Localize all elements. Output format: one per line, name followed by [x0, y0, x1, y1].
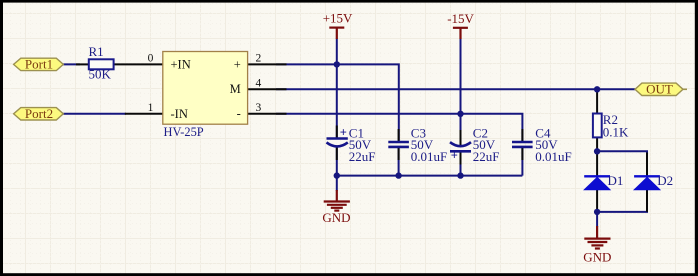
- svg-text:-: -: [237, 106, 241, 120]
- svg-text:D1: D1: [608, 173, 624, 188]
- svg-text:-15V: -15V: [447, 11, 474, 26]
- svg-text:M: M: [230, 82, 241, 96]
- svg-text:GND: GND: [322, 210, 350, 225]
- svg-text:1: 1: [148, 102, 154, 114]
- svg-text:+IN: +IN: [171, 57, 191, 71]
- svg-text:0.01uF: 0.01uF: [411, 149, 447, 164]
- svg-text:50K: 50K: [89, 67, 112, 82]
- svg-text:HV-25P: HV-25P: [164, 125, 204, 139]
- svg-text:22uF: 22uF: [349, 149, 376, 164]
- svg-text:Port2: Port2: [25, 106, 53, 121]
- svg-text:+: +: [234, 57, 241, 71]
- svg-text:0.01uF: 0.01uF: [535, 149, 571, 164]
- svg-text:0.1K: 0.1K: [603, 124, 629, 139]
- svg-text:Port1: Port1: [25, 57, 53, 72]
- svg-text:OUT: OUT: [646, 82, 673, 97]
- svg-text:4: 4: [256, 78, 262, 90]
- svg-text:22uF: 22uF: [473, 149, 500, 164]
- svg-text:+: +: [340, 126, 347, 140]
- svg-text:3: 3: [256, 102, 262, 114]
- svg-text:-IN: -IN: [171, 107, 188, 121]
- svg-text:0: 0: [148, 53, 154, 65]
- svg-text:GND: GND: [583, 249, 611, 264]
- svg-text:R1: R1: [89, 44, 104, 59]
- svg-text:2: 2: [256, 53, 262, 65]
- svg-text:+15V: +15V: [323, 11, 353, 26]
- svg-text:+: +: [451, 148, 458, 162]
- svg-text:D2: D2: [657, 173, 673, 188]
